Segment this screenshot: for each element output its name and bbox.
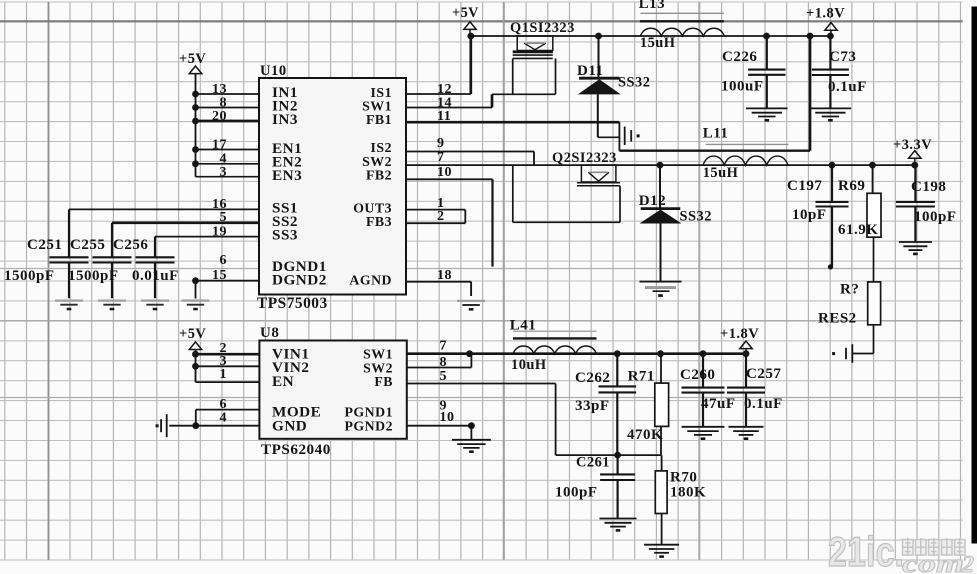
svg-text:20: 20 [212, 109, 227, 124]
svg-text:PGND1: PGND1 [345, 405, 394, 420]
svg-text:D12: D12 [639, 193, 666, 209]
svg-text:C226: C226 [722, 49, 757, 65]
svg-text:D11: D11 [577, 63, 604, 79]
svg-text:EN3: EN3 [272, 167, 302, 184]
svg-text:5: 5 [220, 210, 228, 225]
svg-text:SS32: SS32 [618, 75, 650, 91]
svg-text:+1.8V: +1.8V [806, 6, 845, 22]
svg-text:0.01uF: 0.01uF [132, 268, 179, 284]
svg-text:C256: C256 [113, 237, 148, 253]
svg-text:470K: 470K [627, 427, 663, 443]
svg-text:1500pF: 1500pF [68, 268, 119, 284]
svg-text:15uH: 15uH [640, 35, 676, 51]
svg-text:+3.3V: +3.3V [893, 137, 932, 153]
svg-text:R70: R70 [670, 469, 697, 485]
svg-text:61.9K: 61.9K [838, 222, 878, 238]
svg-text:180K: 180K [670, 485, 706, 501]
svg-text:L13: L13 [639, 0, 666, 12]
svg-text:100pF: 100pF [555, 485, 598, 501]
svg-text:0.1uF: 0.1uF [828, 79, 867, 95]
svg-text:100pF: 100pF [914, 209, 957, 225]
svg-text:SS32: SS32 [680, 209, 712, 225]
svg-text:Q2SI2323: Q2SI2323 [552, 150, 617, 166]
svg-text:FB2: FB2 [366, 168, 392, 183]
svg-text:15uH: 15uH [703, 165, 739, 181]
svg-text:U8: U8 [260, 325, 279, 341]
svg-text:C257: C257 [746, 366, 781, 382]
svg-text:U10: U10 [260, 63, 287, 79]
svg-text:10: 10 [440, 410, 455, 425]
svg-text:C251: C251 [27, 237, 62, 253]
svg-text:+5V: +5V [179, 326, 206, 342]
svg-text:19: 19 [212, 225, 227, 240]
svg-text:+5V: +5V [179, 51, 206, 67]
svg-text:100uF: 100uF [721, 79, 764, 95]
svg-text:18: 18 [437, 268, 452, 283]
svg-text:com: com [902, 549, 964, 574]
svg-text:RES2: RES2 [818, 311, 857, 327]
svg-text:Q1SI2323: Q1SI2323 [510, 20, 575, 36]
svg-text:R?: R? [840, 282, 859, 298]
svg-text:SS3: SS3 [272, 227, 298, 244]
svg-text:R71: R71 [628, 369, 655, 385]
svg-text:DGND2: DGND2 [272, 272, 327, 289]
svg-text:C261: C261 [576, 454, 610, 470]
svg-text:1: 1 [220, 367, 228, 382]
svg-text:IS2: IS2 [371, 140, 392, 155]
svg-text:SW2: SW2 [363, 360, 393, 375]
svg-text:4: 4 [220, 410, 228, 425]
svg-text:3: 3 [220, 165, 228, 180]
svg-text:10: 10 [437, 165, 452, 180]
svg-text:17: 17 [212, 138, 227, 153]
svg-text:AGND: AGND [349, 273, 392, 288]
svg-text:IN3: IN3 [272, 111, 298, 128]
svg-text:1500pF: 1500pF [4, 268, 55, 284]
svg-text:47uF: 47uF [701, 396, 736, 412]
svg-text:EN: EN [272, 373, 294, 390]
svg-text:10pF: 10pF [792, 207, 827, 223]
svg-text:7: 7 [440, 339, 448, 354]
svg-text:PGND2: PGND2 [345, 419, 394, 434]
svg-text:21ic.: 21ic. [828, 528, 904, 574]
svg-text:C197: C197 [787, 178, 822, 194]
svg-text:C198: C198 [911, 179, 946, 195]
svg-text:C255: C255 [70, 237, 105, 253]
svg-text:C262: C262 [575, 370, 610, 386]
svg-text:+5V: +5V [452, 5, 479, 21]
svg-text:FB3: FB3 [366, 214, 392, 229]
svg-text:2: 2 [437, 209, 445, 224]
svg-text:10uH: 10uH [511, 357, 547, 373]
svg-text:FB1: FB1 [366, 112, 392, 127]
svg-text:15: 15 [212, 268, 227, 283]
svg-text:2: 2 [961, 552, 974, 574]
svg-text:+1.8V: +1.8V [720, 326, 759, 342]
svg-text:TPS75003: TPS75003 [257, 295, 328, 312]
svg-text:TPS62040: TPS62040 [261, 441, 331, 458]
svg-text:C73: C73 [829, 49, 856, 65]
svg-text:9: 9 [437, 136, 445, 151]
svg-text:C260: C260 [680, 367, 715, 383]
svg-text:5: 5 [440, 369, 448, 384]
svg-text:FB: FB [374, 374, 393, 389]
svg-text:33pF: 33pF [575, 398, 610, 414]
svg-text:6: 6 [220, 253, 228, 268]
svg-text:SW1: SW1 [363, 347, 393, 362]
svg-text:GND: GND [272, 418, 307, 435]
svg-text:R69: R69 [838, 178, 865, 194]
svg-text:L11: L11 [703, 125, 729, 141]
svg-text:0.1uF: 0.1uF [744, 396, 783, 412]
